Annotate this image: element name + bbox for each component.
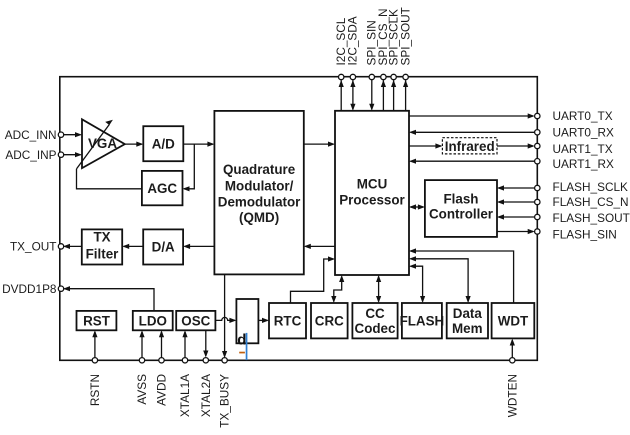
svg-text:VGA: VGA xyxy=(88,136,117,151)
wire SPI_CS_N pin (arrow up) xyxy=(381,80,386,111)
pin XTAL2A (output from OSC, arrow down) xyxy=(199,330,213,417)
block OSC xyxy=(176,311,215,330)
svg-text:I2C_SDA: I2C_SDA xyxy=(346,16,360,65)
svg-text:WDT: WDT xyxy=(498,313,529,328)
wire UART0_RX pin to MCU xyxy=(409,130,535,135)
svg-text:A/D: A/D xyxy=(152,137,175,152)
wire WDTEN to WDT xyxy=(510,339,515,358)
artifact blue caret line xyxy=(246,333,248,360)
svg-text:RSTN: RSTN xyxy=(88,374,102,406)
wire clock divider to RTC xyxy=(258,318,269,323)
svg-text:Demodulator: Demodulator xyxy=(218,195,301,210)
svg-text:FLASH: FLASH xyxy=(400,313,445,328)
wire Flash Controller to FLASH_SIN pin xyxy=(497,229,535,234)
block D/A xyxy=(143,229,183,264)
pin I2C_SCL xyxy=(334,17,348,80)
svg-text:Codec: Codec xyxy=(355,321,396,336)
svg-text:RST: RST xyxy=(83,313,111,328)
svg-text:TX_BUSY: TX_BUSY xyxy=(218,374,232,428)
block Flash Controller xyxy=(425,180,497,237)
svg-text:AVDD: AVDD xyxy=(155,374,169,406)
pin SPI_SIN xyxy=(365,20,379,79)
svg-text:FLASH_SCLK: FLASH_SCLK xyxy=(553,180,629,194)
svg-text:LDO: LDO xyxy=(139,313,167,328)
pin UART1_TX xyxy=(535,142,613,156)
wire I2C_SCL pin (MCU output, arrow up) xyxy=(339,80,344,111)
wire FLASH_SOUT pin to Flash Controller xyxy=(497,214,535,219)
svg-text:TX: TX xyxy=(93,230,110,245)
wire UART1_RX pin to MCU xyxy=(409,159,535,164)
block LDO xyxy=(133,311,173,330)
pin AVDD xyxy=(155,330,169,406)
pin XTAL1A xyxy=(178,330,192,417)
block clock divider xyxy=(236,299,258,343)
artifact glyph d xyxy=(237,332,246,349)
pin ADC_INP xyxy=(5,148,63,162)
block RST xyxy=(77,311,117,330)
wire VGA to A/D xyxy=(125,142,144,147)
pin SPI_SOUT xyxy=(398,7,412,80)
wire OSC to clock divider (with hop over TX_BUSY line) xyxy=(215,317,236,323)
wire D/A to TX Filter xyxy=(122,244,143,249)
svg-text:Modulator/: Modulator/ xyxy=(225,178,294,193)
wire AGC feedback to VGA xyxy=(77,169,142,189)
block QMD xyxy=(214,111,303,275)
block MCU Processor U-MCU xyxy=(335,111,409,275)
block Infrared (dashed) xyxy=(442,138,497,154)
pin FLASH_SIN xyxy=(535,227,617,241)
svg-text:XTAL1A: XTAL1A xyxy=(178,374,192,417)
svg-text:UART1_TX: UART1_TX xyxy=(553,142,613,156)
wire SPI_SCLK pin (arrow up) xyxy=(391,80,396,111)
wire SPI_SIN pin (MCU input, arrow down) xyxy=(369,80,374,111)
svg-text:XTAL2A: XTAL2A xyxy=(199,374,213,417)
wire MCU to CRC (stepped, both arrows) xyxy=(331,275,344,303)
wire I2C_SDA pin (bidirectional) xyxy=(350,80,355,111)
svg-text:OSC: OSC xyxy=(181,313,210,328)
pin DVDD1P8 xyxy=(2,282,64,296)
pin UART1_RX xyxy=(535,157,614,171)
svg-text:DVDD1P8: DVDD1P8 xyxy=(2,282,57,296)
wire ADC_INP to VGA xyxy=(63,152,82,157)
block FLASH xyxy=(400,303,445,338)
chip boundary xyxy=(60,77,538,361)
svg-text:Data: Data xyxy=(453,306,483,321)
svg-text:ADC_INP: ADC_INP xyxy=(5,148,56,162)
svg-text:Mem: Mem xyxy=(452,321,483,336)
wire FLASH_CS_N pin to Flash Controller xyxy=(497,199,535,204)
wire QMD to D/A xyxy=(183,244,214,249)
svg-text:CRC: CRC xyxy=(315,313,344,328)
svg-text:FLASH_SIN: FLASH_SIN xyxy=(553,227,617,241)
svg-text:SPI_SOUT: SPI_SOUT xyxy=(398,7,412,65)
pin TX_BUSY xyxy=(218,358,232,428)
svg-text:Infrared: Infrared xyxy=(445,139,495,154)
svg-text:D/A: D/A xyxy=(152,240,175,255)
svg-text:RTC: RTC xyxy=(274,313,302,328)
svg-text:CC: CC xyxy=(365,306,385,321)
pin WDTEN xyxy=(505,358,519,418)
wire QMD to TX_BUSY pin xyxy=(222,274,227,358)
svg-text:Controller: Controller xyxy=(429,207,494,222)
wire A/D output branch down to AGC xyxy=(183,144,195,191)
block CC Codec xyxy=(352,303,397,338)
wire LDO to DVDD1P8 pin xyxy=(63,286,154,311)
wire TX Filter to TX_OUT pin xyxy=(63,244,82,249)
amplifier VGA xyxy=(82,119,125,168)
block A/D xyxy=(143,126,183,161)
svg-text:(QMD): (QMD) xyxy=(239,210,279,225)
svg-text:TX_OUT: TX_OUT xyxy=(10,240,57,254)
wire MCU to Data Mem xyxy=(409,256,471,303)
svg-text:WDTEN: WDTEN xyxy=(505,374,519,417)
svg-text:AGC: AGC xyxy=(147,181,177,196)
svg-text:AVSS: AVSS xyxy=(135,374,149,405)
pin UART0_RX xyxy=(535,126,614,140)
artifact orange tick xyxy=(239,352,245,354)
pin AVSS xyxy=(135,330,149,404)
wire MCU to QMD (demod input) xyxy=(304,244,335,249)
pin FLASH_SCLK xyxy=(535,180,628,194)
block WDT xyxy=(492,303,535,338)
block Data Mem xyxy=(447,303,488,338)
wire Infrared to UART1_TX pin xyxy=(497,143,535,148)
wire FLASH_SCLK pin to Flash Controller xyxy=(497,185,535,190)
svg-text:Processor: Processor xyxy=(339,193,405,208)
wire MCU to UART0_TX pin xyxy=(409,113,535,118)
wire QMD to MCU xyxy=(304,142,335,147)
block AGC xyxy=(142,171,183,205)
block CRC xyxy=(311,303,348,338)
pin SPI_CS_N xyxy=(376,8,390,79)
wire MCU to WDT xyxy=(409,248,514,303)
VGA gain-control arrow (from AGC) xyxy=(77,120,113,169)
block RTC xyxy=(269,303,306,338)
svg-text:UART1_RX: UART1_RX xyxy=(553,157,615,171)
pin SPI_SCLK xyxy=(386,9,400,80)
svg-text:FLASH_CS_N: FLASH_CS_N xyxy=(553,195,629,209)
svg-text:Flash: Flash xyxy=(444,192,479,207)
svg-text:ADC_INN: ADC_INN xyxy=(5,128,57,142)
wire MCU to Infrared (UART1_TX) xyxy=(409,143,442,148)
svg-text:MCU: MCU xyxy=(357,177,388,192)
pin RSTN xyxy=(88,330,102,406)
pin FLASH_SOUT xyxy=(535,211,630,225)
svg-text:FLASH_SOUT: FLASH_SOUT xyxy=(553,211,630,225)
pin UART0_TX xyxy=(535,109,613,123)
pin I2C_SDA xyxy=(346,16,360,80)
wire A/D to QMD xyxy=(183,142,214,147)
wire RTC to MCU (stepped) xyxy=(291,256,336,303)
svg-text:Quadrature: Quadrature xyxy=(223,162,295,177)
wire ADC_INN to VGA xyxy=(63,132,82,137)
wire MCU to CC Codec (bidirectional) xyxy=(376,275,381,303)
block TX Filter xyxy=(82,229,122,264)
pin ADC_INN xyxy=(5,128,64,142)
pin FLASH_CS_N xyxy=(535,195,629,209)
wire SPI_SOUT pin (arrow up) xyxy=(403,80,408,111)
wire MCU to FLASH xyxy=(409,264,425,303)
pin TX_OUT xyxy=(10,240,64,254)
svg-text:Filter: Filter xyxy=(86,247,120,262)
svg-text:d: d xyxy=(237,332,246,349)
wire MCU to Flash Controller (bidirectional) xyxy=(409,204,425,209)
svg-text:UART0_TX: UART0_TX xyxy=(553,109,613,123)
svg-text:UART0_RX: UART0_RX xyxy=(553,126,615,140)
